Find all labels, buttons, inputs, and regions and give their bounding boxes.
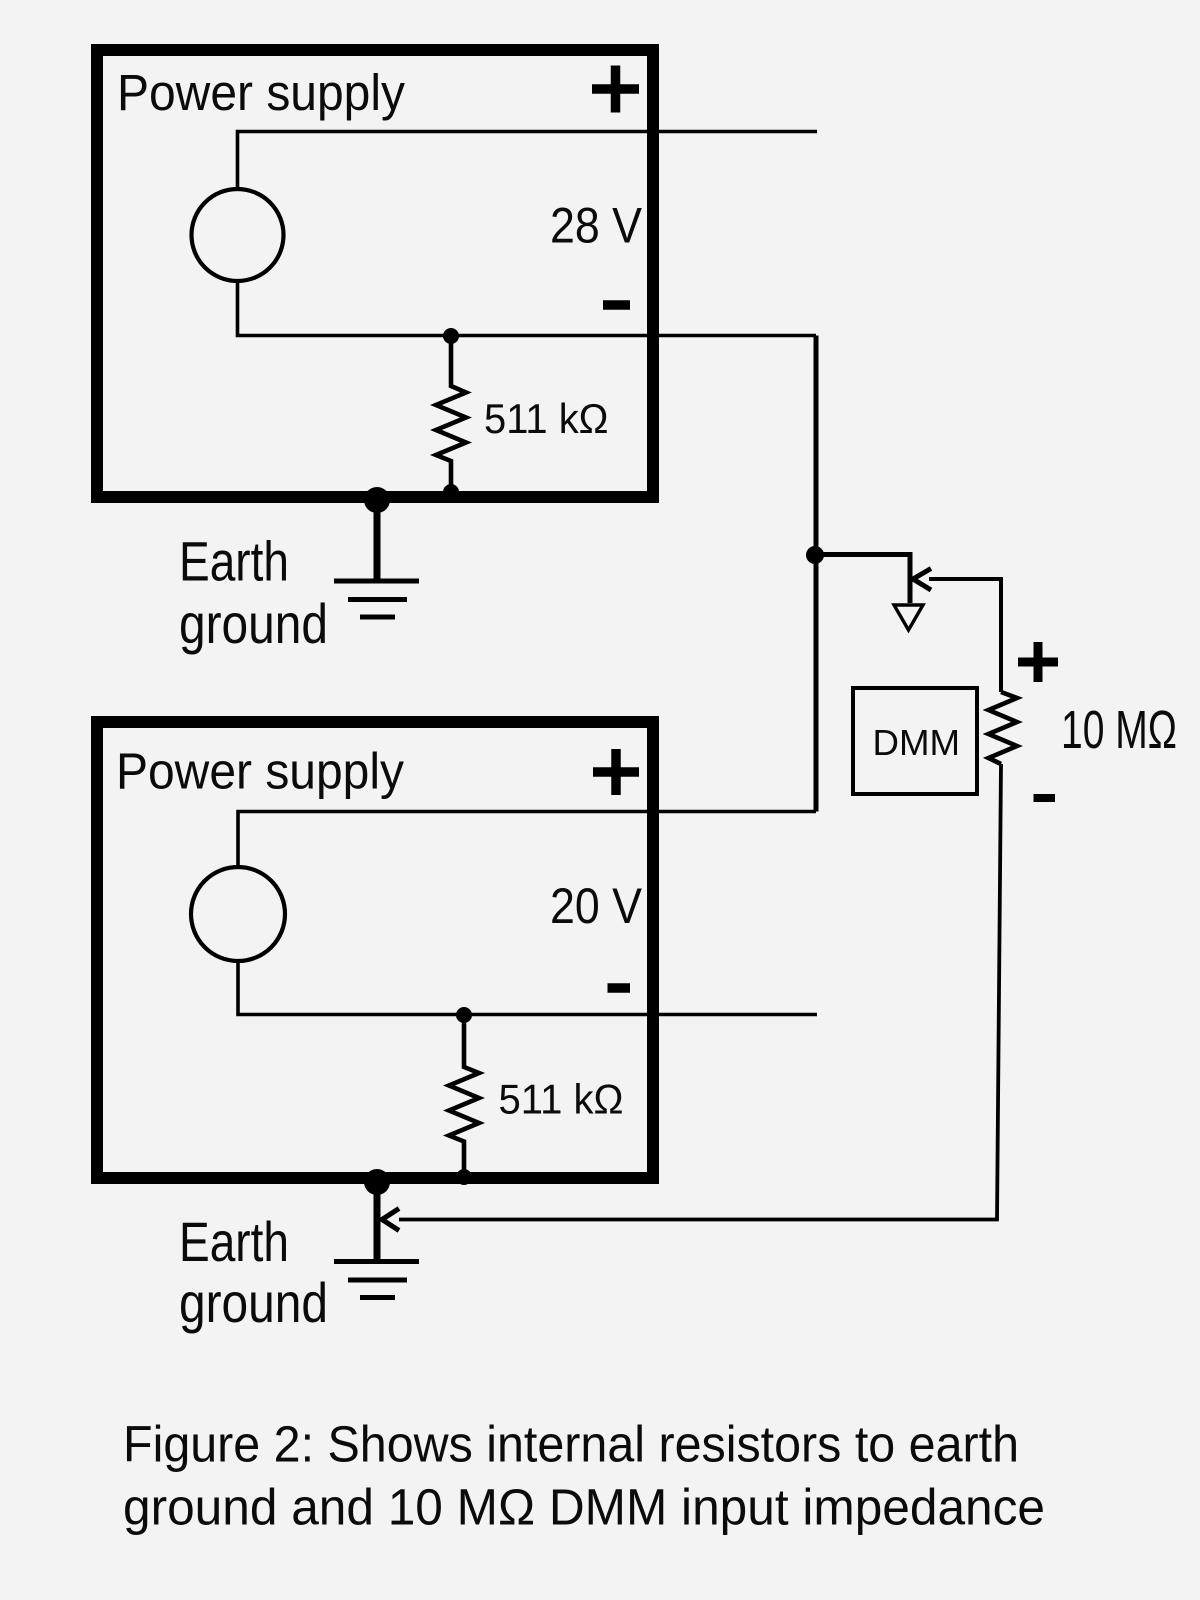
arrowhead at PS2 earth ground stem bbox=[382, 1209, 399, 1231]
+ polarity label at R3 bbox=[1018, 642, 1058, 682]
wire: V1 top to PS1 + output bbox=[238, 132, 818, 190]
ground: PS2 earth ground symbol bbox=[334, 1182, 419, 1298]
svg-text:Power supply: Power supply bbox=[117, 64, 405, 121]
svg-text:511 kΩ: 511 kΩ bbox=[499, 1076, 624, 1123]
resistor R3 (10 MOhm DMM input impedance) bbox=[989, 692, 1018, 764]
wire: junction to probe tip bbox=[815, 555, 910, 604]
probe tip (open triangle) bbox=[894, 605, 923, 630]
power supply PS1 box bbox=[97, 50, 653, 497]
wire: PS1 - output down to PS2 + output (vertical bus) bbox=[814, 336, 819, 812]
node: R1 top junction bbox=[443, 328, 459, 344]
node: DMM probe junction bbox=[806, 546, 824, 564]
svg-text:Power supply: Power supply bbox=[116, 743, 404, 800]
power supply PS2 box bbox=[97, 722, 653, 1178]
node: PS2 earth ground junction bbox=[364, 1169, 390, 1195]
svg-text:ground: ground bbox=[179, 1271, 328, 1334]
voltage source V2 (20 V) bbox=[191, 867, 285, 961]
wire: DMM + lead to R3 top bbox=[929, 579, 1001, 692]
ground: PS1 earth ground symbol bbox=[334, 500, 419, 617]
svg-text:DMM: DMM bbox=[873, 722, 961, 763]
DMM + lead arrowhead bbox=[913, 569, 931, 591]
node: R2 bottom junction bbox=[456, 1169, 472, 1185]
svg-text:511 kΩ: 511 kΩ bbox=[484, 395, 609, 442]
wire: V2 top to PS2 + output bbox=[238, 812, 816, 868]
PS1 - output terminal symbol bbox=[603, 300, 630, 310]
PS2 - output terminal symbol bbox=[608, 983, 631, 993]
svg-text:ground and 10 MΩ DMM input imp: ground and 10 MΩ DMM input impedance bbox=[123, 1479, 1045, 1536]
svg-text:ground: ground bbox=[179, 592, 328, 655]
svg-text:28 V: 28 V bbox=[550, 198, 643, 254]
resistor R2 (511 kOhm) bbox=[449, 1015, 479, 1178]
- polarity label at R3 bbox=[1034, 794, 1056, 802]
PS2 + output terminal symbol bbox=[593, 749, 639, 795]
svg-text:Earth: Earth bbox=[179, 1210, 289, 1273]
svg-text:Earth: Earth bbox=[179, 530, 289, 593]
svg-text:10 MΩ: 10 MΩ bbox=[1061, 700, 1177, 760]
resistor R1 (511 kOhm) bbox=[436, 336, 466, 497]
PS1 + output terminal symbol bbox=[592, 66, 639, 113]
voltage source V1 (28 V) bbox=[192, 189, 284, 281]
svg-text:20 V: 20 V bbox=[550, 878, 643, 934]
node: R2 top junction bbox=[456, 1007, 472, 1023]
wire: V1 bottom to PS1 - output bbox=[238, 281, 817, 336]
node: PS1 earth ground junction bbox=[364, 487, 390, 513]
svg-text:Figure 2: Shows internal resis: Figure 2: Shows internal resistors to ea… bbox=[123, 1416, 1019, 1473]
wire: R3 bottom to PS2 earth ground (return) bbox=[399, 764, 1001, 1220]
DMM box bbox=[853, 688, 977, 794]
node: R1 bottom junction bbox=[443, 484, 459, 500]
wire: V2 bottom to PS2 - output bbox=[238, 961, 817, 1015]
